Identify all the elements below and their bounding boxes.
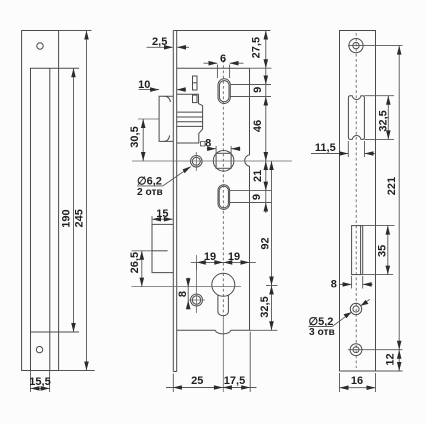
svg-text:17,5: 17,5 — [224, 375, 245, 387]
svg-text:35: 35 — [377, 245, 389, 257]
svg-text:15: 15 — [156, 208, 168, 220]
svg-text:16: 16 — [351, 375, 363, 387]
svg-text:10: 10 — [138, 79, 150, 91]
svg-text:27,5: 27,5 — [251, 37, 263, 58]
svg-text:8: 8 — [331, 278, 337, 290]
svg-text:32,5: 32,5 — [259, 296, 271, 317]
svg-text:9: 9 — [252, 87, 264, 93]
svg-text:30,5: 30,5 — [129, 126, 141, 147]
svg-text:12: 12 — [384, 353, 396, 365]
svg-text:2 отв: 2 отв — [137, 187, 163, 198]
svg-text:21: 21 — [252, 170, 264, 182]
svg-text:8: 8 — [177, 291, 189, 297]
svg-text:32,5: 32,5 — [377, 110, 389, 131]
svg-text:25: 25 — [191, 375, 203, 387]
svg-text:11,5: 11,5 — [315, 142, 336, 154]
svg-text:221: 221 — [386, 177, 398, 195]
svg-text:46: 46 — [252, 120, 264, 132]
svg-text:9: 9 — [251, 194, 263, 200]
svg-text:19: 19 — [204, 251, 216, 263]
svg-text:2,5: 2,5 — [152, 36, 167, 48]
svg-text:245: 245 — [73, 209, 85, 227]
svg-text:15,5: 15,5 — [29, 376, 50, 388]
svg-text:26,5: 26,5 — [129, 252, 141, 273]
svg-text:3 отв: 3 отв — [309, 327, 335, 338]
svg-text:19: 19 — [228, 251, 240, 263]
svg-text:190: 190 — [61, 209, 73, 227]
svg-text:6: 6 — [220, 53, 226, 65]
svg-text:92: 92 — [259, 237, 271, 249]
